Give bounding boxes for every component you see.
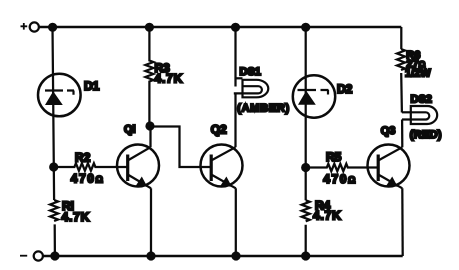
lamp DS2	[402, 93, 442, 141]
svg-text:1/2W: 1/2W	[405, 68, 431, 80]
svg-text:Q2: Q2	[211, 123, 227, 137]
wire Q2 emitter	[235, 188, 237, 256]
wire top supply rail	[40, 26, 402, 28]
terminal +V	[21, 22, 39, 31]
wire R6 to DS2	[400, 73, 403, 113]
diode D2	[293, 75, 353, 117]
svg-text:(RED): (RED)	[410, 129, 442, 141]
resistor R2 470ohm	[57, 150, 128, 185]
terminal -V	[20, 251, 43, 260]
node top rail / D2 branch	[301, 23, 310, 32]
resistor R1 4.7K	[50, 199, 90, 224]
svg-text:D1: D1	[84, 79, 100, 93]
resistor R4 4.7K	[302, 198, 342, 222]
svg-text:4.7K: 4.7K	[313, 209, 342, 223]
node top rail / D1 branch	[48, 23, 57, 32]
transistor Q3	[368, 125, 410, 188]
svg-text:DS1: DS1	[240, 66, 261, 78]
transistor Q2	[201, 123, 243, 189]
resistor R3 4.7K	[145, 27, 183, 126]
transistor Q1	[117, 123, 159, 188]
node Q1 collector / R3 / Q2 base junction	[145, 121, 154, 130]
node bottom rail / Q2 emitter	[231, 251, 240, 260]
node R2 / left branch junction	[49, 162, 58, 171]
node bottom rail / Q1 emitter	[146, 251, 155, 260]
lamp DS1	[234, 66, 290, 115]
wire left branch vertical	[53, 27, 55, 256]
resistor R5 470ohm	[310, 150, 379, 186]
svg-text:R2: R2	[75, 150, 91, 164]
wire top rail right corner down to R6	[400, 27, 402, 49]
resistor R6 27ohm 1/2W	[397, 49, 431, 80]
wire DS2 to Q3 collector	[401, 120, 403, 148]
node bottom rail / R4	[301, 251, 310, 260]
wire Q1 collector	[149, 126, 151, 147]
node top rail / DS1 branch	[231, 23, 240, 32]
wire D2 branch vertical	[305, 27, 307, 256]
svg-text:DS2: DS2	[411, 93, 432, 105]
wire Q3 emitter to bottom rail	[401, 188, 404, 256]
wire bottom return rail	[43, 255, 403, 257]
svg-text:QI: QI	[124, 123, 136, 135]
node top rail / R3 branch	[145, 23, 154, 32]
svg-text:470Ω: 470Ω	[71, 171, 103, 185]
svg-text:470Ω: 470Ω	[323, 172, 355, 186]
wire DS1 stub to lamp envelope	[236, 77, 243, 79]
node R5 / D2 branch junction	[301, 163, 310, 172]
wire DS1 branch lower / Q2 collector	[234, 93, 236, 147]
svg-text:(AMBER): (AMBER)	[237, 103, 290, 115]
svg-text:4.7K: 4.7K	[155, 71, 184, 85]
svg-text:Q3: Q3	[381, 125, 396, 137]
wire Q1 emitter	[150, 188, 152, 256]
svg-text:D2: D2	[337, 82, 353, 96]
node bottom rail / R1	[50, 251, 59, 260]
svg-text:R5: R5	[326, 150, 342, 164]
wire DS1 branch upper	[234, 27, 236, 87]
diode D1	[38, 74, 100, 117]
wire R3 junction to Q2 base	[150, 127, 211, 168]
svg-text:4.7K: 4.7K	[62, 210, 91, 224]
